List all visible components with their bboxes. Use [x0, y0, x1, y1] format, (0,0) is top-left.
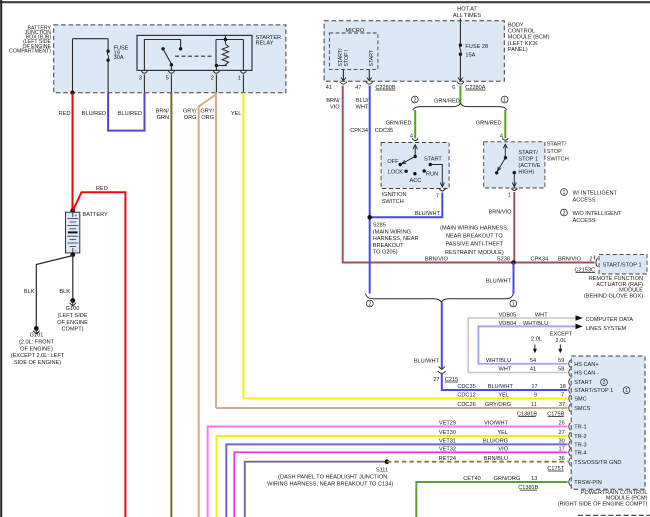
- BJB label: [9, 25, 51, 54]
- svg-text:RET24: RET24: [439, 456, 456, 462]
- svg-text:COMPUTER DATA: COMPUTER DATA: [586, 317, 634, 323]
- starter relay box: [137, 35, 252, 70]
- svg-text:(DASH PANEL TO HEADLIGHT JUNCT: (DASH PANEL TO HEADLIGHT JUNCTION: [278, 475, 387, 481]
- wire WHT/BLU computer data line (VDB04): [478, 326, 575, 363]
- ignition switch pivot dot: [414, 155, 417, 158]
- relay coil bottom dot: [215, 64, 218, 67]
- svg-text:WHT/BLU: WHT/BLU: [523, 321, 548, 327]
- fuse 28 15A: [459, 44, 462, 82]
- BCM label: [508, 23, 550, 53]
- wire BLK battery negative to G100: [72, 255, 74, 299]
- svg-text:47: 47: [355, 85, 361, 91]
- connector label C175B (column right): [547, 411, 564, 417]
- start/stop contact dot left: [495, 171, 498, 174]
- start/stop switch inside label: [518, 150, 540, 176]
- relay pin 3 internal wire: [144, 40, 180, 71]
- svg-text:BRN/: BRN/: [156, 109, 170, 115]
- svg-text:1: 1: [625, 388, 628, 394]
- wire BRN/VIO start/stop pin1 to S238: [513, 192, 515, 263]
- svg-text:RELAY: RELAY: [256, 41, 274, 47]
- contact dot RUN: [423, 169, 426, 172]
- svg-text:58: 58: [558, 367, 564, 373]
- svg-text:BLU/RED: BLU/RED: [82, 111, 106, 117]
- svg-text:54: 54: [530, 358, 536, 364]
- wire GRN/RED BCM pin6 to brace: [459, 86, 461, 104]
- svg-text:SIDE OF ENGINE): SIDE OF ENGINE): [14, 360, 61, 366]
- ignition switch lever arrowhead: [402, 160, 406, 163]
- fuse 19 value label: [114, 46, 129, 62]
- svg-text:SWITCH: SWITCH: [547, 157, 569, 163]
- wire BLK diagonal branch to G101: [36, 256, 73, 328]
- svg-text:START/STOP 1: START/STOP 1: [574, 388, 613, 394]
- svg-text:(MAIN WIRING HARNESS,: (MAIN WIRING HARNESS,: [440, 225, 509, 231]
- svg-text:17: 17: [558, 447, 564, 453]
- svg-text:BLU/WHT: BLU/WHT: [486, 278, 512, 284]
- svg-text:37: 37: [559, 402, 565, 408]
- start/stop switch dashed box: [484, 142, 545, 188]
- wire BLU/WHT BCM pin47 down to S285 and brace: [369, 86, 371, 294]
- svg-text:5: 5: [166, 76, 169, 82]
- svg-text:17: 17: [531, 384, 537, 390]
- svg-text:2.0L: 2.0L: [556, 338, 567, 344]
- svg-text:START/: START/: [338, 48, 344, 67]
- battery negative terminal dot: [70, 252, 75, 257]
- svg-text:1: 1: [238, 76, 241, 82]
- svg-text:SWITCH: SWITCH: [382, 199, 404, 205]
- svg-text:BLU/WHT: BLU/WHT: [488, 384, 514, 390]
- svg-text:30A: 30A: [114, 55, 124, 61]
- start/stop lever arrowhead: [498, 167, 501, 171]
- svg-text:(ACTIVE: (ACTIVE: [518, 163, 540, 169]
- svg-text:(LEFT KICK: (LEFT KICK: [508, 41, 538, 47]
- svg-text:2: 2: [563, 211, 566, 217]
- PCM pin brackets: [569, 360, 571, 486]
- label COMPUTER DATA LINES SYSTEM: [586, 317, 634, 332]
- row VET29 labels: [439, 421, 565, 427]
- connector label C2153C: [574, 267, 595, 273]
- svg-text:(LEFT SIDE: (LEFT SIDE: [57, 313, 87, 319]
- svg-text:S111: S111: [376, 467, 388, 473]
- svg-text:1: 1: [503, 98, 506, 104]
- svg-text:BRN/VIO: BRN/VIO: [558, 257, 582, 263]
- svg-text:HIGH): HIGH): [518, 170, 534, 176]
- svg-text:LINES SYSTEM: LINES SYSTEM: [586, 326, 627, 332]
- svg-text:BLU/WHT: BLU/WHT: [415, 211, 441, 217]
- svg-text:2: 2: [368, 302, 371, 308]
- RFA module label: [584, 276, 643, 299]
- svg-text:59: 59: [558, 358, 564, 364]
- contact dot OFF: [399, 163, 402, 166]
- row CET40 labels: [463, 476, 537, 482]
- svg-text:GRN/RED: GRN/RED: [476, 121, 502, 127]
- svg-text:GRY/: GRY/: [200, 109, 214, 115]
- remote function actuator (RAF) module dashed box: [599, 254, 647, 274]
- row WHT pin labels: [498, 367, 564, 373]
- svg-text:2: 2: [589, 257, 592, 263]
- svg-text:(EXCEPT 2.0L: LEFT: (EXCEPT 2.0L: LEFT: [11, 353, 65, 359]
- relay coil stub to box top: [224, 35, 226, 39]
- svg-text:STOP 1: STOP 1: [518, 156, 538, 162]
- wire GRN/ORG CET40 to PCM TRSW-PIN: [416, 482, 567, 517]
- svg-text:SMCS: SMCS: [574, 406, 590, 412]
- svg-text:LOCK: LOCK: [388, 170, 404, 176]
- svg-text:HARNESS, NEAR: HARNESS, NEAR: [373, 236, 419, 242]
- RFA pin bracket: [596, 258, 598, 267]
- splice S238 dot: [511, 260, 516, 265]
- svg-text:WHT: WHT: [498, 367, 511, 373]
- wire YEL relay pin1 down to SMC row: [242, 93, 244, 399]
- svg-text:RUN: RUN: [426, 171, 438, 177]
- svg-text:MODULE (BCM): MODULE (BCM): [508, 35, 550, 41]
- ignition switch dashed box: [381, 143, 449, 189]
- circled 1 (GRN/RED right): [501, 96, 508, 103]
- start/stop switch outside label: [547, 142, 569, 163]
- wire GRY/ORG relay pin2 down to SMCS row: [215, 93, 217, 408]
- fuse 28 value label: [465, 44, 488, 59]
- svg-text:WHT/BLU: WHT/BLU: [486, 358, 511, 364]
- label HOT AT ALL TIMES: [453, 7, 482, 20]
- variant header EXCEPT 2.0L: [550, 332, 573, 344]
- svg-text:W/O INTELLIGENT: W/O INTELLIGENT: [573, 211, 622, 217]
- row VET30 labels: [439, 430, 565, 436]
- svg-text:G101: G101: [30, 333, 44, 339]
- svg-text:7: 7: [561, 393, 564, 399]
- svg-text:YEL: YEL: [231, 111, 242, 117]
- relay switch pivot contact: [161, 47, 164, 50]
- page left border: [0, 0, 2, 517]
- circled 1 below brace right: [510, 300, 517, 307]
- contact dot START: [429, 163, 432, 166]
- start/stop contact dot right: [513, 171, 516, 174]
- svg-text:18: 18: [560, 384, 566, 390]
- splice S285 dot: [367, 215, 372, 220]
- wire RED battery feed (BJB to battery): [72, 93, 74, 211]
- svg-text:36: 36: [558, 456, 564, 462]
- svg-text:START/STOP 1: START/STOP 1: [603, 263, 642, 269]
- svg-text:3: 3: [139, 76, 142, 82]
- ground G100: [70, 298, 76, 306]
- svg-text:VET29: VET29: [439, 421, 456, 427]
- wire label BRN/VIO (pin41): [326, 98, 340, 111]
- svg-text:BREAKOUT: BREAKOUT: [373, 243, 404, 249]
- svg-text:9: 9: [534, 393, 537, 399]
- svg-text:S285: S285: [373, 223, 386, 229]
- svg-text:PASSIVE ANTI-THEFT: PASSIVE ANTI-THEFT: [446, 242, 504, 248]
- svg-text:WIRING HARNESS, NEAR BREAKOUT: WIRING HARNESS, NEAR BREAKOUT TO C134): [267, 482, 393, 488]
- svg-text:OFF: OFF: [387, 159, 399, 165]
- svg-text:VET30: VET30: [439, 430, 456, 436]
- connector label C175T: [547, 466, 564, 472]
- svg-text:BLU/: BLU/: [356, 98, 369, 104]
- row VET31 labels: [439, 439, 565, 445]
- start/stop switch pin 1 connector cup: [511, 188, 517, 190]
- wire BLU/WHT C215 to PCM START/STOP 1: [442, 374, 568, 391]
- svg-text:CPK34: CPK34: [350, 128, 368, 134]
- relay coil winding zigzag: [222, 44, 228, 66]
- row CDC12 labels: [457, 393, 564, 399]
- svg-text:S238: S238: [497, 257, 510, 263]
- wire BRN/BLU RET24 solid segment to S111: [245, 462, 387, 517]
- svg-text:HS CAN+: HS CAN+: [574, 362, 598, 368]
- connector label C1381B (column left): [517, 411, 537, 417]
- svg-text:27: 27: [433, 377, 439, 383]
- svg-text:27: 27: [558, 430, 564, 436]
- svg-text:CDC26: CDC26: [457, 402, 475, 408]
- relay coil bottom rail: [216, 65, 227, 67]
- svg-text:START: START: [369, 49, 375, 66]
- svg-text:BRN/BLU: BRN/BLU: [484, 456, 508, 462]
- computer data arrow bottom: [576, 324, 583, 330]
- svg-text:G100: G100: [66, 306, 80, 312]
- fuse 28 feed wire: [459, 19, 461, 45]
- svg-text:VIO/WHT: VIO/WHT: [484, 421, 509, 427]
- svg-text:BODY: BODY: [508, 23, 524, 29]
- relay pin stub wires to BJB edge: [144, 75, 243, 93]
- start/stop switch lever: [498, 158, 506, 171]
- wire BLU/WHT S238 down to brace: [513, 263, 515, 294]
- svg-text:1: 1: [508, 193, 511, 199]
- svg-text:(2.0L: FRONT: (2.0L: FRONT: [19, 340, 55, 346]
- svg-text:+: +: [75, 213, 78, 218]
- svg-text:BRN/: BRN/: [326, 98, 340, 104]
- relay pin 5 internal wire: [170, 65, 172, 71]
- wire BRN/GRN relay pin5 down off-page: [170, 93, 172, 517]
- wire GRY/ORG to PCM SMCS: [216, 407, 568, 409]
- svg-text:CPK34: CPK34: [531, 257, 549, 263]
- relay actuation dashed link: [175, 55, 214, 57]
- svg-text:-: -: [75, 248, 77, 254]
- start/stop switch pivot dot: [504, 156, 507, 159]
- svg-text:41: 41: [326, 85, 332, 91]
- svg-text:BRN/VIO: BRN/VIO: [488, 209, 512, 215]
- svg-text:RESTRAINT MODULE): RESTRAINT MODULE): [445, 250, 504, 256]
- svg-text:NEAR BREAKOUT TO: NEAR BREAKOUT TO: [446, 234, 504, 240]
- svg-text:TSS/OSS/TR GND: TSS/OSS/TR GND: [574, 460, 621, 466]
- svg-text:PANEL): PANEL): [508, 47, 528, 53]
- wire label GRY/ORG right: [200, 109, 214, 121]
- svg-text:START: START: [574, 380, 592, 386]
- svg-text:CONTROL: CONTROL: [508, 29, 535, 35]
- contact dot LOCK: [404, 170, 407, 173]
- svg-text:ACCESS: ACCESS: [573, 197, 596, 203]
- svg-text:CDC12: CDC12: [457, 393, 475, 399]
- svg-text:STOP: STOP: [547, 149, 562, 155]
- PCM pin names: [574, 362, 621, 486]
- junction dot at BJB bottom edge: [70, 91, 74, 95]
- ignition switch label: [382, 192, 407, 205]
- circled 2 (GRN/RED left): [411, 96, 418, 103]
- start/stop right contact to pin1 wire with arrow: [512, 173, 516, 187]
- connector label C2280A: [465, 85, 485, 91]
- svg-text:2: 2: [413, 98, 416, 104]
- battery symbol: [66, 212, 80, 254]
- connector label C215: [445, 377, 458, 383]
- svg-text:1: 1: [512, 302, 515, 308]
- svg-text:TRSW-PIN: TRSW-PIN: [574, 480, 602, 486]
- svg-text:30: 30: [558, 439, 564, 445]
- BJB left feed wire to box edge: [72, 39, 74, 93]
- svg-text:TR-1: TR-1: [574, 425, 586, 431]
- wire BLU/WHT merged down to C215: [441, 302, 443, 369]
- row RET24 labels: [439, 456, 565, 462]
- svg-text:BLK: BLK: [59, 289, 70, 295]
- ignition switch arrow from pivot to pin4: [413, 145, 417, 156]
- computer data arrow top: [576, 315, 583, 321]
- svg-text:EXCEPT: EXCEPT: [550, 332, 573, 338]
- svg-text:41: 41: [530, 367, 536, 373]
- svg-text:ACC: ACC: [410, 178, 422, 184]
- cut-off dashed box edge at bottom right: [578, 514, 650, 516]
- PCM label: [558, 490, 648, 508]
- svg-text:TR-2: TR-2: [574, 434, 586, 440]
- svg-text:GRN/RED: GRN/RED: [434, 99, 460, 105]
- BCM pin connector cups: [340, 78, 464, 85]
- relay switch fixed contact: [179, 47, 182, 50]
- svg-text:7: 7: [436, 194, 439, 200]
- BCM pin 41 internal wire: [342, 69, 344, 81]
- svg-text:ORG: ORG: [201, 115, 214, 121]
- row CDC26 labels: [457, 402, 565, 408]
- start/stop switch arrow from pivot to pin4: [503, 144, 507, 157]
- wire label GRY/ORG left: [183, 109, 197, 121]
- wire BLU/RED fuse19 to relay pin3 (U loop): [108, 93, 144, 131]
- ignition switch lever to OFF: [402, 157, 415, 164]
- merge brace for BLU/WHT pair: [366, 294, 514, 303]
- svg-text:BATTERY: BATTERY: [83, 212, 109, 218]
- row VET32 labels: [439, 447, 565, 453]
- row CDC35 labels: [457, 384, 566, 390]
- svg-text:15A: 15A: [465, 53, 475, 59]
- contact dot ACC: [413, 172, 416, 175]
- ignition switch pin 4 connector cup: [412, 138, 418, 140]
- svg-text:TO G205): TO G205): [373, 250, 398, 256]
- starter relay label: [256, 35, 282, 47]
- note 1 W/ INTELLIGENT ACCESS: [561, 189, 618, 204]
- wire GRN/RED left leg to ignition switch: [414, 110, 416, 139]
- svg-text:TR-3: TR-3: [574, 443, 586, 449]
- relay pin numbers: [139, 76, 241, 82]
- wire label BRN/GRN: [156, 109, 170, 121]
- BCM pin 47 internal wire: [368, 69, 370, 81]
- svg-text:GRN/RED: GRN/RED: [386, 121, 412, 127]
- circled 2 after START: [601, 379, 608, 386]
- svg-text:GRY/ORG: GRY/ORG: [485, 402, 511, 408]
- relay coil top dot: [224, 38, 227, 41]
- svg-text:BLK: BLK: [24, 289, 35, 295]
- svg-text:HOT AT: HOT AT: [457, 7, 477, 13]
- wire BRN/BLU RET24 dashed segment to PCM TSS/OSS/TR GND: [387, 461, 568, 463]
- svg-text:YEL: YEL: [497, 430, 508, 436]
- svg-text:VIO: VIO: [498, 447, 508, 453]
- relay coil top connect: [224, 40, 226, 45]
- svg-text:VET31: VET31: [439, 439, 456, 445]
- svg-text:START: START: [424, 157, 442, 163]
- svg-text:RED: RED: [96, 186, 108, 192]
- svg-text:26: 26: [558, 421, 564, 427]
- splice S285 label: [373, 223, 419, 256]
- ground G100 label: [57, 306, 88, 332]
- svg-text:WHT: WHT: [356, 105, 369, 111]
- svg-text:BLU/RED: BLU/RED: [118, 111, 142, 117]
- relay pin 1 internal wire: [242, 40, 244, 71]
- svg-text:ACCESS: ACCESS: [573, 218, 596, 224]
- svg-text:SMC: SMC: [574, 397, 586, 403]
- svg-text:START/: START/: [518, 150, 538, 156]
- svg-text:2: 2: [603, 380, 606, 386]
- svg-text:COMPARTMENT): COMPARTMENT): [9, 48, 51, 54]
- wire BLU/WHT ignition pin7 to S285: [370, 193, 443, 218]
- battery positive terminal dot: [70, 208, 75, 213]
- fuse 19 30A: [106, 39, 109, 93]
- svg-text:BLU/WHT: BLU/WHT: [414, 359, 440, 365]
- variant arrow right: [558, 345, 562, 354]
- svg-text:BRN/VIO: BRN/VIO: [425, 257, 449, 263]
- svg-text:(MAIN WIRING: (MAIN WIRING: [373, 229, 411, 235]
- wire BLU/ORG VET31 to PCM TR-3: [226, 444, 567, 517]
- svg-text:START/: START/: [547, 142, 567, 148]
- svg-text:13: 13: [531, 476, 537, 482]
- wire BRN/VIO BCM pin41 down and right to S238: [343, 86, 595, 263]
- wire YEL VET30 to PCM TR-2: [217, 436, 568, 517]
- powertrain control module (PCM) dashed box: [571, 356, 645, 489]
- ground G101 label: [11, 333, 65, 366]
- svg-text:VDB04: VDB04: [499, 321, 517, 327]
- svg-text:W/ INTELLIGENT: W/ INTELLIGENT: [573, 191, 618, 197]
- start/stop switch pin 4 connector cup: [502, 138, 508, 140]
- connector label C1381B (CET40): [518, 485, 538, 491]
- variant arrow left: [533, 345, 537, 354]
- relay pin 2 internal wire: [215, 66, 217, 71]
- svg-text:MICRO: MICRO: [346, 28, 365, 34]
- row WHT/BLU pin labels: [486, 358, 564, 364]
- svg-text:OF ENGINE): OF ENGINE): [20, 346, 53, 352]
- relay pin connector cups: [141, 71, 246, 73]
- svg-text:(RIGHT SIDE OF ENGINE COMPT): (RIGHT SIDE OF ENGINE COMPT): [558, 501, 648, 507]
- svg-text:TR-4: TR-4: [574, 451, 586, 457]
- svg-text:GRY/: GRY/: [183, 109, 197, 115]
- svg-text:VDB05: VDB05: [499, 312, 517, 318]
- relay switch lever: [163, 49, 171, 64]
- wire VIO VET32 to PCM TR-4: [234, 452, 567, 517]
- svg-text:WHT: WHT: [535, 312, 548, 318]
- connector label C2280B: [375, 85, 395, 91]
- svg-text:1: 1: [563, 190, 566, 196]
- relay coil top rail: [216, 39, 243, 41]
- svg-text:VIO: VIO: [330, 105, 340, 111]
- in-line connector C215: [438, 367, 446, 374]
- svg-text:STOP I: STOP I: [344, 50, 350, 67]
- note 2 W/O INTELLIGENT ACCESS: [561, 209, 622, 224]
- svg-text:ALL TIMES: ALL TIMES: [453, 13, 482, 19]
- relay switch moving end dot: [170, 63, 173, 66]
- svg-text:2.0L: 2.0L: [531, 336, 542, 342]
- svg-text:2: 2: [211, 76, 214, 82]
- wire RED battery to right riser: [73, 192, 126, 517]
- svg-text:11: 11: [531, 402, 537, 408]
- MICRO pin START/STOP I rotated label: [338, 48, 350, 67]
- S111 harness note: [267, 475, 393, 488]
- ground G101: [33, 326, 39, 334]
- svg-text:CDC35: CDC35: [375, 128, 393, 134]
- svg-text:BLU/ORG: BLU/ORG: [483, 439, 508, 445]
- ignition switch pin 7 connector cup: [439, 189, 445, 191]
- wire VIO/WHT VET29 to PCM TR-1: [208, 427, 568, 517]
- wire label BLU/WHT (pin47): [356, 98, 369, 111]
- svg-text:RED: RED: [59, 111, 71, 117]
- svg-text:6: 6: [452, 85, 455, 91]
- MICRO inner dashed box: [329, 33, 378, 69]
- splice S111 dot: [385, 459, 390, 464]
